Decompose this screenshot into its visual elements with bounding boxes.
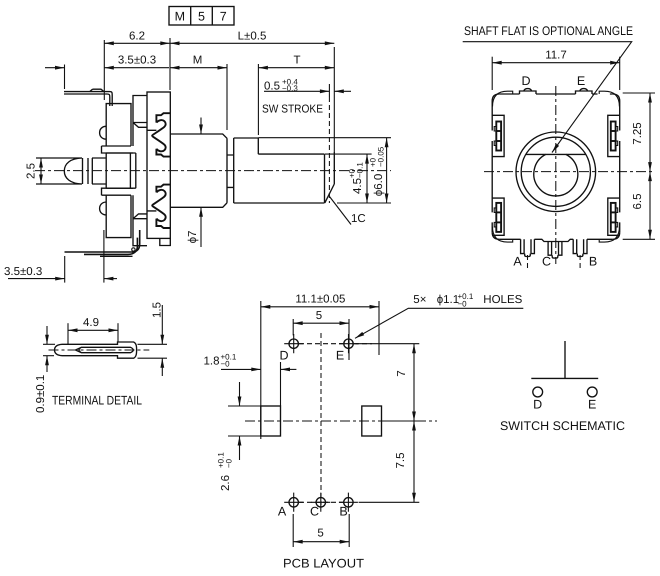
- top view shaft circle with flat: [534, 154, 578, 196]
- top view outer circle: [516, 132, 596, 212]
- top view side clip lower left: [492, 198, 504, 235]
- svg-text:M: M: [175, 10, 185, 24]
- chamfer 1C leader: [330, 197, 366, 226]
- pcb pad right: [362, 406, 382, 436]
- dimension diameter 7: [187, 118, 203, 248]
- svg-text:B: B: [589, 255, 597, 269]
- pcb hole row dashes: [299, 344, 372, 503]
- svg-text:7.25: 7.25: [632, 122, 644, 144]
- svg-text:0.5: 0.5: [264, 81, 280, 93]
- svg-text:−0: −0: [225, 458, 234, 468]
- dimension 2.6 +0.1 -0: [217, 382, 261, 491]
- svg-text:2.5: 2.5: [26, 163, 38, 179]
- svg-text:11.1±0.05: 11.1±0.05: [295, 293, 345, 305]
- svg-text:SHAFT FLAT IS OPTIONAL ANGLE: SHAFT FLAT IS OPTIONAL ANGLE: [464, 24, 633, 38]
- dimension 7.5: [359, 421, 420, 502]
- top view side clip upper right: [608, 115, 620, 156]
- side view collar ring: [227, 155, 234, 187]
- svg-text:L±0.5: L±0.5: [238, 31, 267, 43]
- side view housing left top box: [100, 104, 133, 153]
- side view rear post with crimp rings: [36, 158, 106, 184]
- svg-text:11.7: 11.7: [545, 50, 567, 62]
- side view shaft: [234, 138, 335, 203]
- svg-text:5: 5: [316, 310, 322, 322]
- svg-text:1.8: 1.8: [204, 356, 220, 368]
- svg-text:7.5: 7.5: [395, 453, 407, 469]
- svg-text:E: E: [588, 398, 596, 412]
- svg-text:D: D: [533, 398, 542, 412]
- note shaft flat is optional angle with leader: [463, 24, 633, 154]
- dimension 1.5: [138, 302, 168, 376]
- svg-text:3.5±0.3: 3.5±0.3: [4, 266, 42, 278]
- side view top bent terminal: [64, 89, 112, 106]
- dimension 2.5: [26, 158, 43, 184]
- dimension 1.8 +0.1 -0: [204, 353, 297, 407]
- pcb hole A: [284, 493, 303, 512]
- top view centerline horizontal: [484, 171, 655, 173]
- svg-text:−0.1: −0.1: [356, 162, 365, 178]
- dimension 11.1±0.05: [261, 293, 379, 439]
- svg-text:7: 7: [396, 370, 408, 376]
- dimension L±0.5: [170, 31, 334, 46]
- svg-text:D: D: [521, 74, 530, 88]
- pcb hole D: [284, 334, 303, 353]
- terminal detail centerline: [49, 349, 150, 351]
- dimension diameter 6.0 +0 -0.05: [258, 138, 391, 203]
- svg-text:SW STROKE: SW STROKE: [262, 104, 323, 116]
- dimension 5 top: [293, 310, 349, 360]
- switch schematic common bar: [531, 377, 598, 379]
- top view corner cover ears: [493, 91, 620, 242]
- pcb layout centerline vertical: [320, 333, 322, 505]
- svg-text:3.5±0.3: 3.5±0.3: [118, 55, 156, 67]
- pcb layout centerline horizontal: [245, 420, 437, 422]
- svg-text:C: C: [310, 505, 319, 519]
- pcb pad left: [261, 406, 281, 436]
- svg-text:5: 5: [317, 528, 323, 540]
- dimension 6.2: [104, 31, 170, 101]
- top view pin B: [573, 239, 587, 256]
- dimension M: [170, 55, 227, 130]
- side view housing top plate: [133, 96, 156, 147]
- top view centerline vertical: [555, 86, 557, 264]
- part number box M57: [169, 7, 234, 26]
- svg-text:−0: −0: [221, 360, 231, 369]
- dimension 4.5 +0 -0.1: [325, 154, 372, 203]
- dimension 3.5±0.3 top: [45, 55, 169, 89]
- svg-text:0.9±0.1: 0.9±0.1: [35, 375, 47, 413]
- svg-text:A: A: [278, 505, 287, 519]
- svg-text:−0.05: −0.05: [377, 146, 386, 167]
- top view side clip upper left: [492, 115, 504, 156]
- pcb hole C: [311, 493, 330, 512]
- side view shaft pressed position dashed: [328, 97, 330, 203]
- dimension 7.25: [623, 93, 655, 172]
- svg-text:A: A: [513, 255, 522, 269]
- pcb hole B: [339, 493, 358, 512]
- top view pin centerline dashes A B: [528, 255, 581, 271]
- svg-text:5: 5: [198, 10, 205, 24]
- side view bottom tab: [160, 238, 171, 245]
- svg-text:ϕ1.1: ϕ1.1: [437, 294, 459, 306]
- svg-text:ϕ6.0: ϕ6.0: [373, 174, 385, 196]
- top view body outline: [492, 89, 620, 243]
- svg-text:T: T: [293, 55, 300, 67]
- dimension T: [258, 47, 334, 152]
- svg-text:TERMINAL DETAIL: TERMINAL DETAIL: [52, 394, 142, 408]
- svg-text:D: D: [279, 349, 288, 363]
- svg-text:1.5: 1.5: [152, 302, 164, 318]
- svg-text:E: E: [577, 74, 585, 88]
- dimension 0.9±0.1: [35, 326, 55, 413]
- dimension 4.9: [68, 317, 118, 344]
- switch schematic actuator stem: [564, 341, 566, 378]
- side view housing bottom plate: [133, 195, 156, 246]
- svg-text:2.6: 2.6: [220, 475, 232, 491]
- svg-text:SWITCH SCHEMATIC: SWITCH SCHEMATIC: [500, 419, 625, 433]
- pcb hole E: [339, 334, 358, 353]
- svg-text:−0: −0: [458, 299, 468, 308]
- dimension 0.5 +0.4 -0.3 SW stroke: [262, 78, 351, 116]
- svg-text:M: M: [193, 55, 203, 67]
- side view bottom bent terminal: [65, 230, 140, 254]
- top view ring circle: [521, 137, 590, 206]
- svg-text:5×: 5×: [413, 294, 426, 306]
- svg-text:C: C: [542, 255, 551, 269]
- dimension 11.7: [492, 50, 620, 90]
- svg-text:6.5: 6.5: [632, 194, 644, 210]
- svg-text:7: 7: [220, 10, 227, 24]
- svg-text:ϕ7: ϕ7: [187, 231, 199, 244]
- side view housing left bottom box: [100, 188, 133, 237]
- svg-text:4.9: 4.9: [83, 317, 99, 329]
- note 5x holes with leader: [354, 292, 523, 340]
- top view pin A: [521, 239, 535, 256]
- svg-text:1C: 1C: [351, 213, 366, 225]
- dimension 3.5±0.3 bottom: [4, 230, 117, 283]
- svg-text:6.2: 6.2: [129, 31, 145, 43]
- side view lower spring clip: [152, 185, 170, 228]
- svg-text:PCB LAYOUT: PCB LAYOUT: [283, 557, 364, 571]
- svg-text:HOLES: HOLES: [483, 294, 522, 306]
- side view housing middle block: [106, 153, 136, 188]
- top view switch terminal bumps D E: [520, 89, 593, 94]
- top view pin C: [548, 242, 562, 259]
- switch schematic contact D: [533, 387, 543, 397]
- side view threaded bushing: [170, 134, 227, 207]
- svg-text:E: E: [336, 349, 344, 363]
- top view shaft flat chord: [526, 153, 586, 155]
- side view upper spring clip: [152, 113, 170, 156]
- dimension 5 bottom: [293, 514, 349, 547]
- switch schematic contact E: [587, 387, 597, 397]
- dimension 6.5: [623, 172, 655, 240]
- terminal detail shape: [55, 342, 137, 358]
- svg-text:B: B: [339, 505, 347, 519]
- top view side clip lower right: [608, 198, 620, 235]
- dimension 7: [356, 344, 420, 421]
- side view centerline: [35, 170, 391, 172]
- svg-text:4.5: 4.5: [352, 178, 364, 194]
- side view housing main slab: [147, 92, 170, 238]
